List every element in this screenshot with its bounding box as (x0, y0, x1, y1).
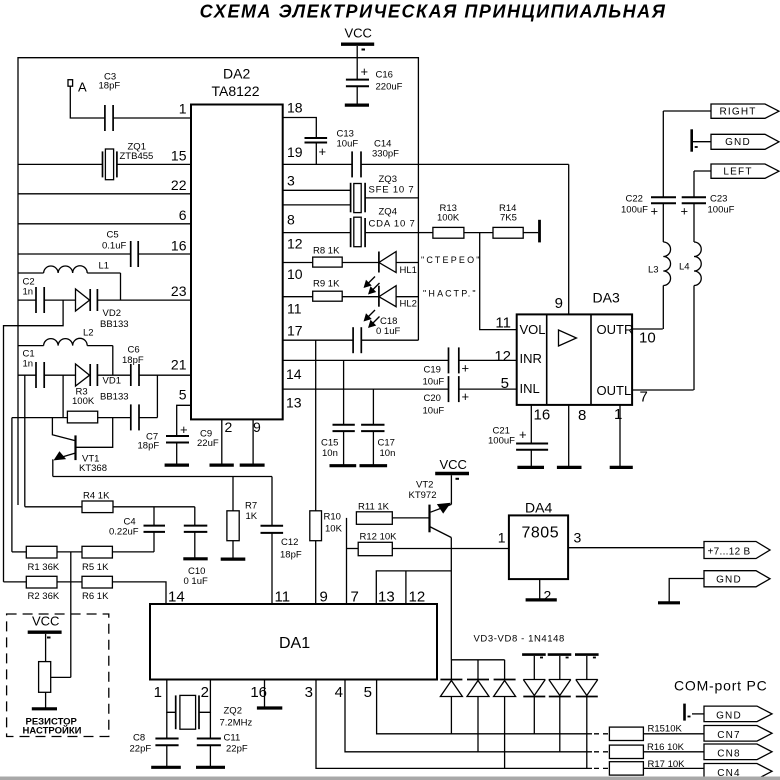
chassis bar COM GND (685, 704, 691, 721)
svg-text:DA2: DA2 (223, 66, 250, 82)
svg-text:C12: C12 (281, 537, 298, 548)
wire R13-R14 node to DA3 pin11 (480, 233, 517, 330)
capacitor C18 (283, 327, 419, 353)
connector +7...12 B (704, 542, 770, 559)
capacitor C13 (305, 138, 328, 164)
wire DA1 pin2 (199, 680, 210, 713)
connector LEFT (694, 164, 779, 178)
svg-text:12: 12 (494, 348, 511, 365)
ground C11 (196, 766, 225, 769)
capacitor C12 (261, 477, 284, 605)
resistor R14 (493, 227, 538, 238)
svg-text:BB133: BB133 (100, 319, 129, 330)
svg-text:1: 1 (154, 684, 162, 701)
resistor R16 (609, 745, 704, 758)
wire DA1 pins13,12 (376, 571, 451, 604)
wire DA4 pin3 output (568, 547, 704, 549)
svg-text:9: 9 (555, 295, 563, 312)
wire DA1 pin16 (264, 680, 266, 709)
svg-text:CN8: CN8 (717, 749, 741, 760)
varactor VD1 (76, 364, 131, 386)
wire DA1 pin4 to bus2 (345, 680, 592, 752)
resistor R8 (283, 257, 379, 267)
capacitor C8 (155, 712, 178, 767)
svg-text:22uF: 22uF (197, 438, 219, 449)
svg-text:1n: 1n (23, 287, 34, 298)
capacitor C23 (682, 171, 706, 242)
svg-text:LEFT: LEFT (723, 167, 752, 178)
svg-text:INR: INR (520, 351, 542, 366)
svg-text:VT2: VT2 (416, 480, 433, 491)
VCC power symbol top (341, 44, 374, 58)
svg-text:R10: R10 (324, 512, 341, 523)
svg-text:10: 10 (639, 330, 656, 347)
node C18 junction long vertical to R10 (315, 340, 317, 511)
wire DA3 pin7 (632, 389, 694, 391)
svg-text:C5: C5 (107, 230, 119, 241)
IC DA3 box (517, 314, 632, 405)
svg-text:0 1uF: 0 1uF (184, 576, 208, 587)
crystal ZQ2 (176, 695, 199, 729)
svg-text:14: 14 (286, 366, 302, 382)
svg-text:22pF: 22pF (226, 744, 248, 755)
svg-text:1K: 1K (246, 511, 258, 522)
resistor R13 (418, 227, 493, 238)
svg-text:ZQ3: ZQ3 (379, 174, 397, 185)
svg-text:DA3: DA3 (593, 290, 620, 306)
svg-text:VCC: VCC (345, 26, 372, 41)
svg-text:100uF: 100uF (488, 436, 515, 447)
svg-text:3: 3 (574, 530, 582, 546)
svg-text:2: 2 (544, 588, 552, 604)
svg-text:2: 2 (201, 684, 209, 701)
svg-text:SFE 10 7: SFE 10 7 (369, 185, 415, 196)
capacitor C9 (166, 436, 189, 465)
svg-text:"СТЕРЕО": "СТЕРЕО" (421, 255, 482, 265)
IC DA1 box (150, 604, 437, 680)
svg-text:100uF: 100uF (708, 205, 735, 216)
node VD2 junction to R2 (4, 300, 64, 582)
bottom gray strip (0, 777, 780, 780)
VCC power symbol VT2 (435, 474, 469, 505)
svg-text:1n: 1n (23, 359, 34, 370)
capacitor C1 (18, 362, 76, 388)
VCC power symbol in tuning box (28, 632, 62, 661)
svg-text:HL2: HL2 (400, 299, 417, 310)
svg-text:0.22uF: 0.22uF (109, 527, 139, 538)
connector CN8 (704, 744, 772, 760)
capacitor C7 (131, 375, 158, 430)
svg-text:GND: GND (725, 137, 751, 148)
wire DA2 pin9 (252, 419, 254, 465)
connector GND mid (669, 571, 770, 603)
diode VD3 (440, 680, 462, 734)
connector CN4 (704, 764, 772, 780)
svg-text:VD3-VD8 - 1N4148: VD3-VD8 - 1N4148 (474, 634, 565, 645)
svg-text:L4: L4 (679, 262, 690, 273)
svg-text:VD2: VD2 (103, 308, 121, 319)
svg-text:C11: C11 (224, 733, 241, 744)
svg-text:НАСТРОЙКИ: НАСТРОЙКИ (23, 725, 82, 737)
inductor L1 (18, 266, 121, 300)
capacitor C19 (449, 347, 517, 373)
svg-text:100K: 100K (72, 396, 95, 407)
svg-text:L3: L3 (648, 265, 659, 276)
resistor R17 (609, 762, 704, 775)
ground DA1 pin16 (257, 706, 282, 709)
capacitor C4 (144, 507, 166, 552)
wire pin6 (18, 223, 191, 225)
svg-text:L2: L2 (83, 328, 94, 339)
wire pin5 stub (177, 405, 191, 436)
svg-text:16: 16 (534, 407, 551, 424)
antenna A (68, 80, 105, 118)
wire bus3 dashes (594, 767, 609, 769)
svg-text:+: + (651, 204, 659, 219)
svg-text:10: 10 (287, 266, 303, 282)
svg-text:23: 23 (171, 283, 187, 299)
capacitor C14 (352, 151, 569, 177)
ground DA2 pin9 (240, 464, 265, 467)
svg-text:14: 14 (168, 589, 185, 606)
capacitor C3 (105, 105, 191, 131)
svg-text:R17 10K: R17 10K (648, 759, 686, 770)
ground potentiometer (32, 707, 57, 710)
svg-text:+: + (319, 144, 327, 159)
svg-text:0 1uF: 0 1uF (376, 326, 400, 337)
svg-text:5: 5 (179, 387, 187, 403)
transistor VT1 (52, 418, 112, 477)
svg-text:10uF: 10uF (337, 139, 359, 150)
svg-text:OUTL: OUTL (597, 383, 632, 398)
svg-text:ZTB455: ZTB455 (120, 151, 154, 162)
svg-text:3: 3 (287, 173, 295, 189)
wire pin14 row (283, 359, 449, 361)
svg-text:8: 8 (287, 212, 295, 228)
node VD1 junction down (62, 375, 64, 417)
svg-text:1: 1 (179, 101, 187, 117)
svg-text:11: 11 (275, 589, 291, 606)
node tuning line down to R4 (24, 375, 26, 507)
svg-text:16: 16 (171, 238, 187, 254)
connector COM GND (692, 706, 772, 722)
svg-text:13: 13 (286, 395, 302, 411)
svg-text:5: 5 (501, 375, 509, 392)
svg-text:+: + (462, 361, 470, 376)
svg-text:19: 19 (287, 144, 303, 160)
svg-text:11: 11 (495, 315, 511, 332)
svg-text:DA1: DA1 (279, 635, 310, 652)
svg-text:18pF: 18pF (99, 81, 121, 92)
chassis bar GND top (692, 129, 698, 151)
svg-text:CDA 10 7: CDA 10 7 (369, 219, 416, 230)
svg-text:330pF: 330pF (372, 149, 399, 160)
ground GND mid (658, 601, 680, 604)
potentiometer tuning resistor (39, 662, 71, 709)
capacitor C2 (18, 287, 76, 313)
svg-text:GND: GND (716, 711, 742, 722)
wire bus1 dashes (594, 733, 609, 735)
svg-text:9: 9 (320, 589, 328, 606)
capacitor C16 (346, 58, 369, 105)
IC DA2 box (191, 105, 283, 420)
svg-text:7.2MHz: 7.2MHz (220, 718, 253, 729)
inductor L2 (18, 338, 113, 375)
crystal ZQ1 (18, 149, 191, 180)
svg-text:22pF: 22pF (130, 744, 152, 755)
svg-text:16: 16 (250, 684, 267, 701)
svg-text:1: 1 (614, 406, 622, 423)
ground C8 (151, 766, 181, 769)
ground C15 (330, 464, 357, 467)
svg-text:220uF: 220uF (376, 82, 403, 93)
capacitor C22 (651, 111, 676, 242)
wire DA1 pin5 to bus1 (377, 680, 592, 734)
svg-text:+: + (361, 64, 369, 79)
inductor L3 (663, 242, 670, 329)
resistor R3 (12, 411, 131, 423)
capacitor C6 (131, 364, 191, 386)
svg-text:R4 1K: R4 1K (83, 491, 110, 502)
wire DA3 pin8 (568, 405, 570, 468)
svg-text:9: 9 (253, 419, 261, 435)
ground C17 (360, 464, 388, 467)
svg-text:HL1: HL1 (400, 265, 417, 276)
capacitor C17 (361, 389, 384, 466)
svg-text:R1 36K: R1 36K (28, 562, 60, 573)
connector GND top (693, 134, 779, 149)
ground DA3 pin1 (610, 466, 633, 469)
LED HL2 arrows (365, 310, 380, 327)
svg-text:R9 1K: R9 1K (313, 279, 340, 290)
capacitor C20 (449, 376, 517, 402)
svg-text:+: + (681, 204, 689, 219)
svg-text:GND: GND (716, 575, 742, 586)
wire bus2 dashes (594, 751, 609, 753)
wire pin22 (18, 193, 191, 195)
varactor VD2 (76, 289, 192, 311)
svg-text:C8: C8 (133, 733, 145, 744)
svg-text:17: 17 (287, 323, 303, 339)
svg-text:6: 6 (179, 207, 187, 223)
resistor R4 (25, 501, 195, 513)
svg-text:C20: C20 (424, 393, 441, 404)
resistor R7 (227, 477, 239, 560)
diode VD5 (494, 680, 516, 769)
ground R7 (221, 557, 246, 560)
svg-text:1: 1 (498, 530, 506, 546)
svg-text:8: 8 (578, 407, 586, 424)
svg-text:R16 10K: R16 10K (647, 742, 685, 753)
svg-text:R6 1K: R6 1K (82, 591, 109, 602)
svg-text:VCC: VCC (440, 457, 467, 472)
wire DA3 pin9 vertical (568, 164, 570, 314)
svg-text:7805: 7805 (522, 525, 560, 542)
svg-text:R8 1K: R8 1K (313, 246, 340, 257)
svg-text:KT972: KT972 (409, 490, 437, 501)
ground C10 (183, 557, 207, 560)
capacitor C5 (18, 241, 191, 267)
wire DA1 pin3 to bus3 (316, 680, 592, 769)
svg-text:+: + (180, 422, 188, 437)
svg-text:+: + (519, 427, 527, 442)
svg-text:BB133: BB133 (100, 392, 129, 403)
svg-text:C22: C22 (626, 194, 643, 205)
wire DA2 pin2 (221, 419, 223, 465)
op-amp triangle DA3 (559, 330, 577, 346)
ground C16 (345, 103, 369, 106)
svg-text:21: 21 (171, 357, 187, 373)
LED HL1 arrows (365, 277, 380, 294)
svg-text:7K5: 7K5 (500, 213, 517, 224)
node R3 to R1 vertical (11, 418, 13, 552)
svg-text:C23: C23 (710, 194, 727, 205)
svg-text:18pF: 18pF (138, 441, 160, 452)
resistor R6 (82, 576, 166, 604)
LED HL2 (379, 286, 419, 307)
terminal bar after R14 (538, 220, 541, 243)
svg-text:COM-port PC: COM-port PC (674, 678, 768, 694)
svg-text:12: 12 (409, 589, 426, 606)
filter ZQ4 (283, 217, 419, 247)
svg-text:R2 36K: R2 36K (28, 591, 60, 602)
wire DA1 pin1 (167, 680, 176, 713)
svg-text:13: 13 (378, 589, 395, 606)
wire pin13 row (283, 388, 449, 390)
svg-text:10uF: 10uF (423, 406, 445, 417)
wire DA1 pin7 vertical (346, 518, 348, 604)
ground C9 (165, 464, 189, 467)
LED HL1 (379, 252, 419, 273)
svg-text:RIGHT: RIGHT (719, 107, 756, 118)
diode VD4 (467, 680, 489, 752)
svg-text:DA4: DA4 (525, 500, 552, 516)
svg-text:CN7: CN7 (717, 730, 741, 741)
svg-text:18pF: 18pF (280, 550, 302, 561)
svg-text:VOL: VOL (520, 322, 546, 337)
diode VD7 with open bar (548, 655, 572, 752)
capacitor C21 (516, 405, 548, 468)
diode VD6 with open bar (522, 655, 546, 734)
svg-text:ZQ4: ZQ4 (379, 207, 397, 218)
svg-text:100K: 100K (437, 213, 460, 224)
capacitor C10 (184, 507, 208, 559)
wire DA3 pin1 (619, 405, 621, 468)
wire pin19 (283, 163, 352, 165)
svg-text:22: 22 (171, 177, 187, 193)
svg-text:0.1uF: 0.1uF (102, 241, 126, 252)
svg-text:INL: INL (520, 381, 540, 396)
resistor R12 (347, 542, 509, 555)
svg-text:11: 11 (287, 301, 302, 317)
svg-text:3: 3 (305, 684, 313, 701)
svg-text:7: 7 (351, 589, 359, 606)
svg-text:L1: L1 (99, 261, 110, 272)
capacitor C15 (333, 360, 355, 465)
ground DA3 pin8 (557, 466, 582, 469)
svg-text:OUTR: OUTR (597, 322, 634, 337)
svg-text:R12 10K: R12 10K (360, 532, 398, 543)
svg-text:12: 12 (287, 236, 303, 252)
transistor VT2 (430, 504, 452, 660)
svg-text:VCC: VCC (32, 614, 59, 629)
svg-text:18: 18 (287, 100, 303, 116)
filter ZQ3 (283, 183, 419, 213)
resistor R1 (12, 546, 82, 558)
svg-text:10n: 10n (322, 448, 338, 459)
wire pin18 to C13 (283, 118, 317, 139)
svg-text:C6: C6 (128, 345, 140, 356)
ground C21 (517, 466, 544, 469)
IC DA4 box (509, 515, 568, 579)
capacitor C11 (197, 712, 221, 767)
resistor R15 (609, 727, 704, 740)
svg-text:C17: C17 (378, 438, 395, 449)
wire DA4 pin2 (539, 579, 541, 600)
svg-text:A: A (78, 80, 87, 95)
connector CN7 (704, 726, 772, 742)
svg-text:R1510K: R1510K (648, 724, 683, 735)
tuning resistor dashed box (7, 614, 109, 737)
svg-text:C16: C16 (376, 70, 393, 81)
connector RIGHT (663, 104, 779, 118)
wire diode rail (451, 660, 504, 680)
svg-text:"НАСТР.": "НАСТР." (423, 289, 478, 299)
diode VD8 with open bar (575, 655, 599, 769)
resistor R5 (82, 546, 154, 558)
svg-text:10uF: 10uF (423, 377, 445, 388)
svg-text:+7...12 B: +7...12 B (707, 547, 750, 558)
svg-text:KT368: KT368 (79, 463, 107, 474)
svg-text:C19: C19 (424, 365, 441, 376)
resistor R9 (283, 291, 379, 301)
svg-text:R11 1K: R11 1K (358, 502, 390, 513)
ground DA4 (526, 598, 557, 601)
ground DA2 pin2 (210, 464, 234, 467)
svg-text:2: 2 (225, 419, 233, 435)
svg-text:100uF: 100uF (621, 205, 648, 216)
svg-text:10n: 10n (380, 448, 396, 459)
resistor R2 (4, 576, 83, 588)
svg-text:TA8122: TA8122 (212, 83, 260, 99)
wire potentiometer wiper vertical (70, 552, 72, 678)
svg-text:15: 15 (171, 148, 187, 164)
svg-text:R7: R7 (245, 501, 257, 512)
wire outer bus frame (left edge, top edge, right rail) (18, 58, 418, 505)
svg-text:7: 7 (640, 389, 648, 406)
wire DA3 pin10 (632, 328, 663, 330)
svg-text:18pF: 18pF (122, 355, 144, 366)
resistor R11 (356, 512, 429, 525)
svg-text:CN4: CN4 (717, 768, 741, 779)
svg-text:СХЕМА ЭЛЕКТРИЧЕСКАЯ ПРИНЦИПИАЛ: СХЕМА ЭЛЕКТРИЧЕСКАЯ ПРИНЦИПИАЛЬНАЯ (200, 2, 667, 22)
wire VT1 emitter row (53, 476, 272, 478)
resistor R10 (310, 511, 322, 604)
svg-text:VD1: VD1 (103, 376, 121, 387)
inductor L4 (694, 242, 701, 390)
svg-text:4: 4 (335, 684, 343, 701)
svg-text:C15: C15 (321, 438, 338, 449)
svg-text:R5 1K: R5 1K (82, 562, 109, 573)
svg-text:+: + (462, 389, 470, 404)
svg-text:ZQ2: ZQ2 (224, 706, 242, 717)
svg-text:10K: 10K (325, 524, 343, 535)
svg-text:5: 5 (364, 684, 372, 701)
